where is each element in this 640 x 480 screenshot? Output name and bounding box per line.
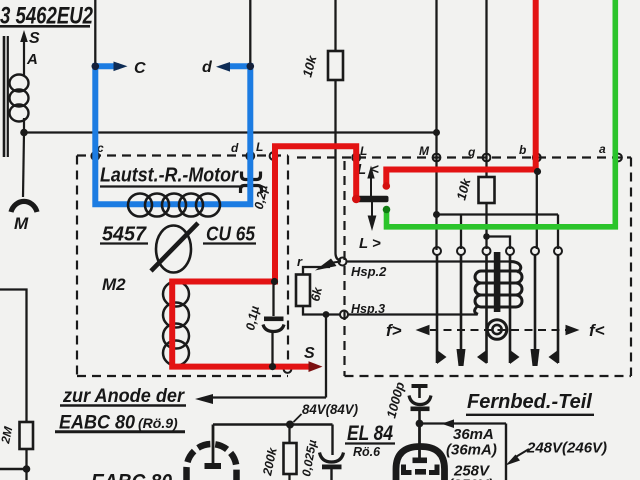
svg-text:a: a xyxy=(599,142,606,156)
node S arrow xyxy=(20,30,40,75)
junction cap 0.1u top xyxy=(271,278,278,285)
contact pin 3 xyxy=(483,247,491,255)
contact pin 4 xyxy=(506,247,514,255)
resistor 10k upper xyxy=(299,51,343,80)
contact pin 1 xyxy=(433,247,441,255)
label 248V(246V) xyxy=(506,440,608,466)
junction S line xyxy=(269,363,276,370)
wire below 10k xyxy=(485,203,487,249)
svg-text:L >: L > xyxy=(359,235,381,252)
pin b xyxy=(533,154,541,162)
dashed box Lautst-R-Motor xyxy=(77,156,288,377)
wire Hsp3 to anode arrow xyxy=(195,315,326,405)
svg-text:1000p: 1000p xyxy=(383,380,407,420)
pin Hsp3 xyxy=(340,311,348,319)
junction 1000p/EL84 xyxy=(416,420,424,428)
tube EABC80 anode plate xyxy=(205,463,222,469)
pin d xyxy=(246,152,254,160)
junction c top xyxy=(92,63,100,71)
svg-text:Lautst.-R.-Motor: Lautst.-R.-Motor xyxy=(100,165,239,187)
svg-text:200k: 200k xyxy=(260,445,280,477)
pin c xyxy=(91,152,99,160)
junction 2M bottom xyxy=(23,465,31,473)
wire branch contact 2 xyxy=(460,215,462,250)
red contact dot upper xyxy=(383,182,391,190)
wire Hsp3 xyxy=(348,313,477,315)
f adjust axis xyxy=(386,321,605,340)
capacitor 0.1u xyxy=(243,284,284,366)
svg-text:EABC 80: EABC 80 xyxy=(91,471,172,480)
contact rod 6 xyxy=(549,255,559,364)
label 5457 xyxy=(100,224,148,246)
contact rod 2 xyxy=(457,255,466,366)
svg-text:M: M xyxy=(14,214,29,233)
switch bar xyxy=(356,196,389,202)
earpiece M symbol xyxy=(11,201,37,233)
antenna coil L1 xyxy=(10,75,29,131)
contact rod 3 xyxy=(477,255,487,364)
label 36mA xyxy=(446,426,497,459)
wire blue c-d loop xyxy=(95,63,250,204)
red switch dot xyxy=(352,195,360,203)
svg-text:Rö.6: Rö.6 xyxy=(353,445,381,459)
junction d top xyxy=(247,63,255,71)
pin Hsp2 xyxy=(339,258,347,266)
junction antenna/bus xyxy=(20,129,28,137)
svg-text:84V(84V): 84V(84V) xyxy=(302,401,358,417)
label CU 65 xyxy=(203,224,256,246)
label Lautst-R-Motor xyxy=(100,165,240,187)
antenna rod bars xyxy=(4,36,8,157)
pin a xyxy=(614,154,622,162)
wire L net vertical xyxy=(336,0,342,261)
resistor 6k xyxy=(296,267,340,315)
wire red b to switch top xyxy=(386,0,535,184)
junction below 10k xyxy=(483,233,490,240)
junction 84V xyxy=(286,421,294,429)
svg-text:L <: L < xyxy=(357,161,379,178)
green contact dot lower xyxy=(383,206,391,214)
capacitor 0.2u xyxy=(241,172,271,211)
label zur Anode der xyxy=(60,386,186,407)
svg-text:L: L xyxy=(256,140,263,154)
svg-text:0,025µ: 0,025µ xyxy=(299,439,319,478)
junction b red xyxy=(534,168,541,175)
speaker motor winding horizontal xyxy=(128,194,220,217)
wire main bus xyxy=(24,131,437,133)
svg-text:S: S xyxy=(29,30,40,47)
pin g xyxy=(483,154,491,162)
tube EABC80 envelope xyxy=(187,444,237,480)
pin L lautst xyxy=(270,152,278,160)
wire Hsp2 xyxy=(346,260,510,262)
wire bottom left xyxy=(0,468,27,470)
svg-text:10k: 10k xyxy=(453,176,473,202)
capacitor 0.025u xyxy=(299,439,343,480)
svg-text:Fernbed.-Teil: Fernbed.-Teil xyxy=(467,391,592,413)
svg-text:zur Anode der: zur Anode der xyxy=(62,386,185,407)
pin L fernbed xyxy=(352,154,360,162)
callout line 84V xyxy=(294,414,302,422)
contact pin 5 xyxy=(531,247,539,255)
svg-text:0,2µ: 0,2µ xyxy=(252,184,271,211)
label Fernbed-Teil xyxy=(466,391,594,415)
svg-text:M2: M2 xyxy=(102,275,126,294)
svg-text:(36mA): (36mA) xyxy=(446,442,497,459)
motor M2 symbol xyxy=(151,223,198,273)
tuning indicator disc xyxy=(487,320,507,340)
label EL 84 xyxy=(345,422,395,459)
junction 6k/Hsp3 xyxy=(323,311,330,318)
svg-text:CU 65: CU 65 xyxy=(206,224,256,246)
svg-text:g: g xyxy=(467,145,476,159)
switch down arrow xyxy=(368,202,377,231)
wire b net vertical xyxy=(536,157,538,249)
svg-text:EL 84: EL 84 xyxy=(347,422,393,445)
wire anode line 84V xyxy=(213,425,333,464)
resistor 10k fernbed xyxy=(453,176,494,203)
dashed box Fernbed-Teil xyxy=(297,158,631,377)
svg-text:f<: f< xyxy=(589,321,605,340)
svg-text:248V(246V): 248V(246V) xyxy=(526,440,607,457)
switch up arrow xyxy=(367,166,374,197)
wire lower horizontal xyxy=(437,213,559,215)
svg-text:f>: f> xyxy=(386,321,402,340)
tube EL84 envelope xyxy=(396,427,445,480)
wire M net vertical xyxy=(435,0,437,250)
wire c from top xyxy=(94,0,96,66)
arrow to c xyxy=(114,62,128,72)
wire 248V xyxy=(420,419,507,480)
wire red L to motor to S xyxy=(172,146,356,366)
title 3 5462 EU2 xyxy=(0,3,94,30)
arrow to S xyxy=(309,361,323,372)
svg-text:S: S xyxy=(304,345,315,362)
wire green a to switch bottom xyxy=(387,0,616,227)
pin M fernbed xyxy=(433,154,441,162)
contact rod 4 xyxy=(510,255,520,364)
contact pin 2 xyxy=(457,247,465,255)
contact pin 6 xyxy=(554,247,562,255)
svg-text:(250V): (250V) xyxy=(448,477,493,480)
resistor 200k xyxy=(260,425,296,480)
svg-text:A: A xyxy=(26,51,38,68)
wire g net vertical xyxy=(485,0,487,177)
svg-text:d: d xyxy=(231,141,239,155)
tuning coil windings xyxy=(475,262,522,315)
motor winding vertical xyxy=(163,282,189,366)
arrow to d xyxy=(216,62,230,72)
svg-text:Hsp.2: Hsp.2 xyxy=(351,264,387,279)
label 258V xyxy=(448,463,493,480)
svg-text:d: d xyxy=(202,59,213,76)
svg-text:C: C xyxy=(134,60,146,77)
wire corner to contact 6 xyxy=(557,215,559,250)
tuning coil core xyxy=(494,252,501,312)
junction bus/M xyxy=(433,129,440,136)
wire branch contact 4 xyxy=(487,237,511,250)
capacitor 1000p xyxy=(383,380,431,423)
svg-text:36mA: 36mA xyxy=(453,426,494,443)
svg-text:(Rö.9): (Rö.9) xyxy=(138,415,178,431)
svg-text:0,1µ: 0,1µ xyxy=(243,305,262,332)
svg-text:M: M xyxy=(419,144,430,158)
svg-text:5457: 5457 xyxy=(102,224,147,246)
contact rod 1 xyxy=(437,255,447,364)
svg-text:2M: 2M xyxy=(0,424,16,445)
pin S lautst xyxy=(284,365,292,373)
wire to earpiece M xyxy=(23,132,24,197)
wire d from top xyxy=(249,0,251,66)
svg-text:6k: 6k xyxy=(308,285,325,303)
label EABC 80 (Ro.9) xyxy=(55,413,185,434)
svg-text:10k: 10k xyxy=(299,53,319,79)
potentiometer wiper r xyxy=(297,254,341,271)
contact rod 5 xyxy=(531,255,540,366)
svg-text:L: L xyxy=(360,144,367,158)
junction M net lower xyxy=(433,211,440,218)
resistor 2M path xyxy=(0,290,33,480)
svg-text:b: b xyxy=(519,143,526,157)
